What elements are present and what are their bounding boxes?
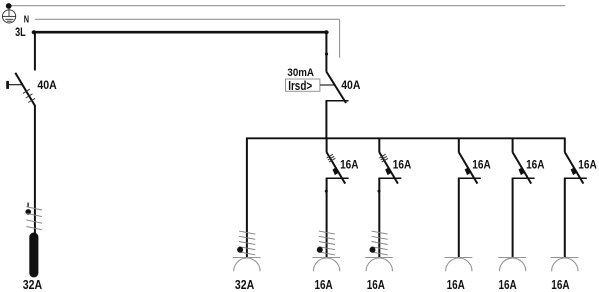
wire: main feeder drop bbox=[34, 32, 36, 70]
wire: branch C to socket bbox=[378, 178, 380, 258]
wire bbox=[326, 138, 328, 153]
PE junction dot bbox=[6, 3, 12, 9]
wire: branch F to socket bbox=[564, 178, 566, 258]
main breaker link line bbox=[8, 84, 22, 86]
Irsd> box bbox=[286, 79, 320, 91]
wire: feeder down to load bbox=[34, 105, 36, 234]
3-phase hatch ticks bbox=[379, 154, 385, 158]
node on branch C wire bbox=[378, 190, 381, 193]
wire: N bus bbox=[35, 18, 340, 20]
main breaker terminal bar bbox=[6, 81, 9, 89]
svg-text:32A: 32A bbox=[23, 278, 42, 292]
cable tick mark (small) bbox=[27, 203, 29, 208]
PE top line bbox=[9, 5, 566, 7]
svg-text:16A: 16A bbox=[578, 158, 596, 172]
svg-text:N: N bbox=[24, 15, 29, 26]
socket outlet branch E bbox=[498, 257, 526, 259]
cable hatch ticks + dot branch C bbox=[372, 231, 388, 234]
node on RCD drop bbox=[325, 52, 328, 55]
node on branch B wire bbox=[325, 190, 328, 193]
RCD blade bbox=[326, 72, 346, 103]
breaker blade bbox=[459, 152, 478, 183]
wire: RCD to bus bbox=[325, 101, 327, 139]
breaker blade bbox=[327, 152, 346, 183]
svg-text:16A: 16A bbox=[551, 278, 569, 292]
breaker body (filled) bbox=[519, 167, 525, 175]
socket outlet branch A bbox=[233, 257, 261, 259]
3-phase hatch ticks bbox=[327, 154, 333, 158]
RCD lower terminal L bbox=[326, 100, 349, 102]
svg-text:3L: 3L bbox=[15, 25, 26, 39]
svg-text:40A: 40A bbox=[37, 78, 57, 92]
lower terminal L bbox=[326, 177, 349, 179]
svg-text:16A: 16A bbox=[472, 158, 490, 172]
svg-text:Irsd>: Irsd> bbox=[288, 78, 312, 93]
main breaker Q1 blade bbox=[15, 73, 35, 106]
svg-text:32A: 32A bbox=[235, 278, 254, 292]
svg-text:16A: 16A bbox=[393, 158, 411, 172]
svg-text:16A: 16A bbox=[447, 278, 465, 292]
breaker body (filled) bbox=[333, 167, 339, 175]
wire bbox=[378, 138, 380, 153]
socket outlet branch B bbox=[312, 257, 340, 259]
breaker blade bbox=[379, 152, 398, 183]
cable conductor dot bbox=[25, 209, 31, 215]
wire: branch D to socket bbox=[458, 178, 460, 258]
link: Irsd box to blade bbox=[320, 84, 335, 86]
wire: branch E to socket bbox=[512, 178, 514, 258]
svg-text:16A: 16A bbox=[367, 278, 385, 292]
wire: branch B to socket bbox=[326, 178, 328, 258]
svg-text:16A: 16A bbox=[315, 278, 333, 292]
cable hatch ticks + dot branch A bbox=[239, 231, 255, 234]
cable hatch ticks bbox=[26, 207, 42, 210]
main breaker 3-phase hatch ticks bbox=[23, 89, 30, 93]
wire: branch A drop bbox=[246, 138, 248, 258]
breaker body (filled) bbox=[571, 167, 577, 175]
node: 3L left corner bbox=[32, 30, 36, 34]
wire bbox=[564, 138, 566, 153]
lower terminal L bbox=[564, 177, 587, 179]
lower terminal L bbox=[458, 177, 481, 179]
wire bbox=[512, 138, 514, 153]
node: 3L right end bbox=[324, 30, 328, 34]
socket outlet branch D bbox=[445, 257, 473, 259]
earth electrode symbol bbox=[3, 9, 16, 23]
wire: RCD drop bbox=[325, 32, 327, 71]
wire bbox=[458, 138, 460, 153]
breaker body (filled) bbox=[465, 167, 471, 175]
svg-text:16A: 16A bbox=[499, 278, 517, 292]
breaker blade bbox=[513, 152, 532, 183]
breaker blade bbox=[565, 152, 584, 183]
load (thick bar) bbox=[29, 233, 38, 278]
lower terminal L bbox=[378, 177, 401, 179]
socket outlet branch C bbox=[365, 257, 393, 259]
svg-text:30mA: 30mA bbox=[287, 67, 314, 79]
wire: 3L bus bbox=[33, 31, 327, 34]
distribution bus bbox=[246, 137, 565, 139]
lower terminal L bbox=[512, 177, 535, 179]
socket outlet branch F bbox=[551, 257, 579, 259]
wire: N drop to RCD bbox=[339, 19, 341, 58]
svg-text:16A: 16A bbox=[526, 158, 544, 172]
cable hatch ticks + dot branch B bbox=[319, 231, 335, 234]
breaker body (filled) bbox=[385, 167, 391, 175]
svg-text:16A: 16A bbox=[340, 158, 358, 172]
svg-text:40A: 40A bbox=[341, 79, 361, 92]
